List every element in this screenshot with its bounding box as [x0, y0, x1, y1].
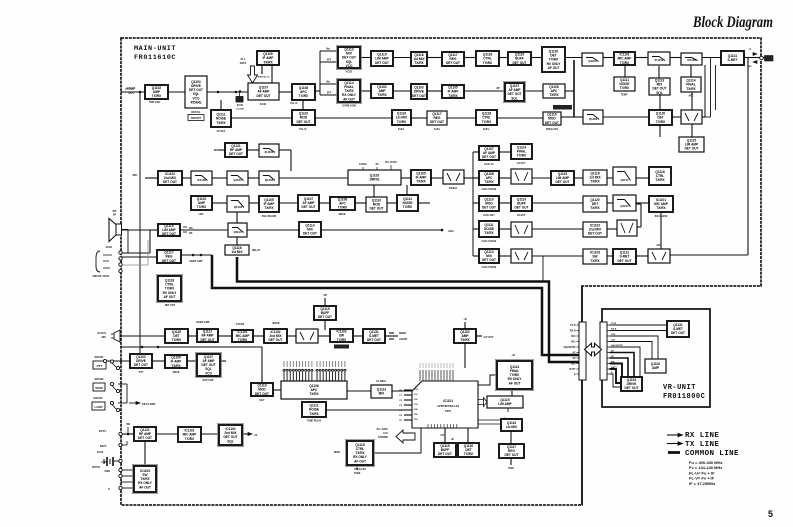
svg-text:DET OUT: DET OUT: [303, 232, 317, 236]
svg-text:DET OUT: DET OUT: [438, 452, 452, 456]
svg-text:DET OUT: DET OUT: [556, 180, 570, 184]
svg-text:REF CNT: REF CNT: [165, 304, 176, 307]
svg-text:Fu/Fv: Fu/Fv: [434, 128, 441, 131]
svg-text:J1101: J1101: [106, 246, 113, 249]
svg-text:CH1: CH1: [571, 342, 576, 344]
svg-text:TX/RX: TX/RX: [590, 180, 600, 184]
svg-text:TX/RX: TX/RX: [264, 206, 274, 210]
svg-text:Fu/Fv PHASE: Fu/Fv PHASE: [482, 240, 497, 243]
svg-text:SQL/MUTE: SQL/MUTE: [564, 347, 576, 349]
svg-text:SIG PHASE: SIG PHASE: [655, 215, 668, 218]
svg-text:AGC: AGC: [448, 229, 454, 233]
svg-text:21.25M: 21.25M: [236, 109, 243, 111]
svg-text:MIC: MIC: [571, 364, 576, 366]
svg-text:TX-B: TX-B: [611, 323, 617, 325]
svg-text:PLL DATA: PLL DATA: [377, 428, 389, 431]
svg-text:BATT: BATT: [570, 368, 577, 371]
svg-text:DETAIL: DETAIL: [191, 110, 201, 114]
svg-text:+B: +B: [450, 438, 453, 441]
svg-text:SW1101: SW1101: [94, 356, 104, 359]
svg-text:IF = 47.25MHz: IF = 47.25MHz: [689, 481, 715, 486]
svg-text:DET OUT: DET OUT: [302, 205, 316, 209]
svg-text:X1 4MHz: X1 4MHz: [376, 380, 387, 383]
svg-text:Fu/Fv: Fu/Fv: [483, 128, 490, 131]
svg-text:DET OUT: DET OUT: [685, 147, 699, 151]
svg-text:SATM COM: SATM COM: [342, 105, 355, 108]
svg-text:DET OUT: DET OUT: [201, 338, 215, 342]
svg-text:TX-B: TX-B: [570, 325, 576, 327]
svg-text:TX/RX: TX/RX: [309, 392, 319, 396]
svg-text:Fu/Fv KEY: Fu/Fv KEY: [483, 215, 495, 217]
svg-text:SEND: SEND: [399, 332, 406, 335]
svg-text:DET OUT: DET OUT: [162, 259, 176, 263]
svg-text:RF: RF: [497, 87, 501, 90]
svg-text:Q1131: Q1131: [233, 178, 242, 182]
svg-text:TX/RX: TX/RX: [414, 61, 424, 65]
svg-text:Fu/Fv PHASE: Fu/Fv PHASE: [482, 188, 497, 191]
svg-text:PTT: PTT: [97, 364, 103, 368]
svg-text:TX/RX: TX/RX: [590, 206, 600, 210]
svg-text:IC1103: IC1103: [687, 58, 696, 62]
svg-text:SP-: SP-: [189, 232, 193, 235]
svg-text:DET OUT: DET OUT: [545, 121, 559, 125]
svg-text:PLL IF: PLL IF: [290, 102, 298, 105]
svg-text:TX/RX: TX/RX: [655, 178, 665, 182]
svg-text:Fu/Fv Fv: Fu/Fv Fv: [484, 164, 494, 166]
svg-text:TX/RX: TX/RX: [197, 205, 207, 209]
svg-text:TX/RX: TX/RX: [460, 338, 470, 342]
svg-text:CPU: CPU: [445, 409, 451, 413]
svg-text:DET OUT: DET OUT: [513, 61, 527, 65]
svg-text:SW1103: SW1103: [93, 397, 103, 400]
svg-text:BATT+: BATT+: [99, 430, 107, 433]
svg-text:DET OUT: DET OUT: [482, 155, 496, 159]
svg-text:DET OUT: DET OUT: [370, 207, 384, 211]
svg-text:FREQ ADJ: FREQ ADJ: [354, 468, 366, 471]
svg-text:SP: SP: [572, 358, 576, 360]
svg-text:DET OUT: DET OUT: [257, 94, 271, 98]
svg-text:RX: RX: [748, 66, 752, 68]
svg-text:TX/RX: TX/RX: [416, 180, 426, 184]
svg-text:TX/RX: TX/RX: [299, 94, 309, 98]
svg-text:DET OUT: DET OUT: [255, 392, 269, 396]
svg-text:GND: GND: [104, 470, 110, 473]
svg-text:Fu/Fv: Fu/Fv: [398, 128, 405, 131]
svg-text:AF KEY: AF KEY: [217, 130, 226, 133]
svg-text:Q1117: Q1117: [620, 178, 629, 182]
svg-text:AF OUT: AF OUT: [164, 295, 176, 299]
svg-text:TX/RX: TX/RX: [216, 121, 226, 125]
svg-text:SQL/MUTE: SQL/MUTE: [611, 345, 623, 347]
svg-text:RX LINE: RX LINE: [685, 432, 719, 440]
svg-text:SFT: SFT: [327, 92, 332, 95]
svg-text:TX/RX: TX/RX: [482, 120, 492, 124]
svg-text:SFT: SFT: [327, 59, 332, 62]
svg-text:VCO1: VCO1: [346, 71, 353, 74]
svg-text:LAMP: LAMP: [95, 405, 103, 409]
svg-text:MIC/SP JACK: MIC/SP JACK: [93, 274, 110, 278]
svg-text:ANT: ANT: [657, 244, 662, 247]
svg-text:APC: APC: [688, 95, 693, 98]
svg-text:FR011800C: FR011800C: [663, 393, 705, 401]
svg-text:DET OUT: DET OUT: [375, 61, 389, 65]
svg-text:KEY: KEY: [260, 399, 265, 402]
svg-text:TX/RX: TX/RX: [403, 205, 413, 209]
svg-text:+5V: +5V: [440, 434, 445, 437]
svg-text:Q1102: Q1102: [265, 178, 274, 182]
svg-text:BATT-: BATT-: [100, 445, 107, 448]
svg-text:J1102: J1102: [97, 451, 104, 454]
svg-text:MAIN-UNIT: MAIN-UNIT: [134, 45, 176, 53]
svg-text:KEY/LAMP: KEY/LAMP: [142, 402, 156, 406]
svg-text:TX/RX: TX/RX: [448, 94, 458, 98]
svg-text:SP: SP: [113, 214, 117, 217]
svg-text:TX/RX: TX/RX: [656, 206, 666, 210]
svg-text:TX/RX: TX/RX: [337, 338, 347, 342]
svg-text:DET OUT: DET OUT: [482, 258, 496, 262]
svg-text:RX-B: RX-B: [570, 331, 576, 333]
svg-text:LOGIC: LOGIC: [359, 163, 367, 166]
svg-text:TX/RX: TX/RX: [620, 86, 630, 90]
svg-text:DET OUT: DET OUT: [671, 331, 685, 335]
svg-text:WAVE: WAVE: [339, 213, 346, 216]
svg-text:TX/RX: TX/RX: [338, 206, 348, 210]
svg-text:1/2 OUT: 1/2 OUT: [517, 163, 526, 165]
svg-text:DET OUT: DET OUT: [618, 259, 632, 263]
svg-text:TX LINE: TX LINE: [685, 441, 719, 449]
svg-text:DET OUT: DET OUT: [482, 206, 496, 210]
svg-text:BATT: BATT: [611, 366, 617, 369]
svg-text:DET OUT: DET OUT: [229, 152, 243, 156]
svg-text:DET OUT: DET OUT: [412, 94, 426, 98]
svg-text:MONI: MONI: [95, 386, 103, 390]
svg-text:DET OUT: DET OUT: [138, 436, 152, 440]
svg-text:PHIL BELOW: PHIL BELOW: [262, 216, 277, 218]
svg-text:SQL: SQL: [227, 439, 234, 443]
svg-text:TX/RX: TX/RX: [484, 180, 494, 184]
svg-text:REPORT: REPORT: [191, 117, 202, 120]
svg-text:TX/RX: TX/RX: [483, 61, 493, 65]
svg-text:SIG: SIG: [214, 149, 218, 152]
svg-text:+B: +B: [511, 354, 514, 357]
svg-text:X1101: X1101: [237, 105, 244, 107]
svg-text:PLL IF: PLL IF: [299, 128, 307, 131]
svg-text:TONE RELAY: TONE RELAY: [307, 420, 322, 423]
svg-text:PTT: PTT: [139, 371, 144, 374]
svg-text:PLL DATA: PLL DATA: [385, 161, 397, 164]
svg-text:Q1103: Q1103: [234, 205, 243, 209]
svg-text:DET OUT: DET OUT: [515, 206, 529, 210]
svg-text:TX/RX: TX/RX: [517, 154, 527, 158]
svg-text:AF OUT: AF OUT: [343, 97, 355, 101]
svg-text:TX/RX: TX/RX: [484, 231, 494, 235]
svg-text:LED: LED: [199, 213, 204, 216]
svg-text:IC1101: IC1101: [265, 150, 274, 154]
svg-text:TX/RX: TX/RX: [172, 338, 182, 342]
svg-text:GND: GND: [508, 467, 514, 470]
svg-text:+B: +B: [254, 434, 257, 437]
svg-text:WAVE: WAVE: [272, 322, 280, 325]
svg-text:1/2 OUT: 1/2 OUT: [517, 215, 526, 217]
svg-text:DET OUT: DET OUT: [505, 453, 519, 457]
svg-text:IC1103: IC1103: [197, 178, 206, 182]
svg-text:TX/RX: TX/RX: [590, 259, 600, 263]
svg-text:CTCSS: CTCSS: [236, 323, 245, 326]
svg-text:VCO: VCO: [205, 371, 212, 375]
svg-text:MIX: MIX: [379, 392, 386, 396]
svg-text:TX/RX: TX/RX: [171, 364, 181, 368]
svg-text:CTCSS: CTCSS: [125, 87, 134, 91]
svg-text:SP+: SP+: [189, 227, 194, 230]
svg-text:DET OUT: DET OUT: [588, 232, 602, 236]
svg-text:TX/RX: TX/RX: [686, 87, 696, 91]
svg-text:ALERT: ALERT: [399, 338, 408, 341]
svg-text:DET OUT: DET OUT: [269, 338, 283, 342]
svg-text:Block Diagram: Block Diagram: [692, 14, 773, 31]
svg-text:DRIVE: DRIVE: [370, 178, 380, 182]
svg-text:Q1114: Q1114: [233, 230, 242, 234]
svg-text:TX/RX: TX/RX: [549, 93, 559, 97]
svg-text:Q1121: Q1121: [620, 204, 629, 208]
svg-text:BAT IN: BAT IN: [92, 466, 100, 469]
svg-text:TX/RX: TX/RX: [377, 93, 387, 97]
svg-text:TMP LED: TMP LED: [149, 101, 160, 104]
svg-text:+B: +B: [463, 318, 466, 321]
svg-text:MIC: MIC: [133, 173, 138, 177]
svg-text:TX/RX: TX/RX: [656, 120, 666, 124]
svg-text:MIC: MIC: [611, 362, 615, 364]
svg-text:TX/RX: TX/RX: [309, 412, 319, 416]
svg-text:COMMON LINE: COMMON LINE: [685, 450, 739, 458]
svg-text:1st MIX: 1st MIX: [231, 250, 243, 254]
svg-text:CH1: CH1: [611, 340, 616, 342]
svg-text:RX-B: RX-B: [611, 329, 617, 331]
svg-text:TX/RX Ma ch: TX/RX Ma ch: [256, 77, 270, 79]
svg-text:IC1102: IC1102: [655, 58, 664, 62]
svg-text:MOD: MOD: [334, 450, 340, 454]
svg-text:FR011610C: FR011610C: [134, 54, 176, 62]
svg-text:TEMP: TEMP: [621, 94, 628, 97]
svg-text:TONE: TONE: [354, 472, 361, 475]
svg-text:AF OUT: AF OUT: [139, 485, 151, 489]
svg-text:AF: AF: [375, 163, 379, 166]
svg-text:AF OUT: AF OUT: [548, 66, 560, 70]
svg-text:TX/RX: TX/RX: [464, 452, 474, 456]
svg-text:DET OUT: DET OUT: [367, 338, 381, 342]
svg-text:DET OUT: DET OUT: [318, 315, 332, 319]
svg-text:SQL: SQL: [656, 91, 663, 95]
svg-text:CH0: CH0: [571, 336, 576, 338]
svg-text:EC1101: EC1101: [97, 332, 106, 335]
svg-text:Q1119: Q1119: [589, 117, 598, 121]
svg-text:TX/RX: TX/RX: [620, 61, 630, 65]
svg-text:DET OUT: DET OUT: [134, 363, 148, 367]
svg-text:CLK: CLK: [383, 432, 388, 435]
svg-text:AMP: AMP: [652, 366, 660, 370]
svg-text:455kHz: 455kHz: [191, 100, 202, 104]
svg-text:VR: VR: [323, 293, 327, 297]
svg-text:uPD78F0034-24: uPD78F0034-24: [437, 404, 460, 408]
svg-text:SQL: SQL: [511, 96, 518, 100]
svg-text:VCO: VCO: [346, 64, 353, 68]
svg-text:+5V OUT: +5V OUT: [483, 336, 494, 339]
svg-text:1st MIX: 1st MIX: [506, 425, 518, 429]
svg-text:FREQ ADJ: FREQ ADJ: [546, 128, 559, 131]
svg-text:KEEP AMP: KEEP AMP: [190, 260, 203, 263]
svg-text:DET OUT: DET OUT: [297, 120, 311, 124]
svg-text:DCS: DCS: [129, 91, 135, 95]
svg-text:KEEP AMP: KEEP AMP: [197, 321, 210, 324]
svg-text:IC1101: IC1101: [443, 399, 453, 403]
svg-text:TX/RX: TX/RX: [185, 437, 195, 441]
svg-text:DATA: DATA: [240, 62, 247, 65]
svg-text:5: 5: [768, 509, 773, 519]
svg-text:455kHz: 455kHz: [449, 187, 458, 190]
svg-text:RELAY: RELAY: [252, 249, 261, 252]
svg-text:VR-UNIT: VR-UNIT: [663, 384, 696, 392]
svg-text:TX/RX: TX/RX: [263, 60, 273, 64]
svg-text:PLL: PLL: [241, 58, 246, 61]
svg-text:S-MET: S-MET: [728, 58, 738, 62]
svg-text:DET OUT: DET OUT: [162, 232, 176, 236]
svg-text:BATT SW: BATT SW: [203, 379, 214, 382]
svg-text:GND: GND: [101, 461, 107, 464]
svg-text:STROBE: STROBE: [378, 436, 388, 439]
svg-text:Q1121: Q1121: [588, 59, 597, 63]
svg-text:DET OUT: DET OUT: [430, 120, 444, 124]
svg-text:MIC: MIC: [102, 336, 107, 339]
svg-text:LIM AMP: LIM AMP: [498, 402, 512, 406]
svg-text:AF OUT: AF OUT: [509, 381, 521, 385]
svg-text:CH0: CH0: [611, 334, 616, 336]
svg-text:TX/RX: TX/RX: [152, 94, 162, 98]
svg-text:DET OUT: DET OUT: [163, 180, 177, 184]
svg-text:TX/RX: TX/RX: [397, 120, 407, 124]
svg-text:SW1102: SW1102: [94, 378, 104, 381]
svg-text:WAVE: WAVE: [173, 371, 180, 374]
svg-text:TX/RX: TX/RX: [238, 338, 248, 342]
svg-text:DET OUT: DET OUT: [446, 61, 460, 65]
svg-text:AF OUT: AF OUT: [354, 459, 366, 463]
svg-text:DET OUT: DET OUT: [625, 386, 639, 390]
svg-text:Fu/Fv PHASE: Fu/Fv PHASE: [482, 266, 497, 269]
svg-text:X1101: X1101: [260, 103, 267, 106]
